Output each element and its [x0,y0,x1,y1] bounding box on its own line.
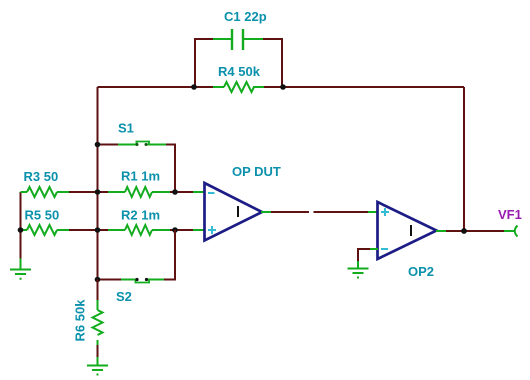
wire: left vertical bus x=97 [97,87,99,280]
wire: main feedback bus y=87 right part [263,86,464,88]
switch S1 bar [136,141,151,144]
op-amp U2 I bar [410,225,412,236]
switch S2 contact dots [135,278,138,281]
svg-text:R4 50k: R4 50k [218,64,261,79]
wire: OP2 minus green stub [369,248,378,250]
wire: C1 left vertical stub [194,38,196,87]
svg-text:R6 50k: R6 50k [73,299,88,342]
resistor R3 zigzag [27,187,57,197]
wire: row1 green stub into op-amp minus [193,191,206,193]
resistor R4 leads (green) [213,86,264,88]
op-amp U2 (OP2) triangle [378,202,437,259]
switch S1 green wire [118,144,166,146]
node: junction row2 S2 branch [172,227,178,233]
wire: row1 maroon bus-to-R1 [98,191,110,193]
wire: C1 right vertical stub [281,38,283,87]
switch S2 green wire [121,279,164,281]
wire: R6 bottom maroon [97,345,99,358]
wire: OP2 output maroon to VF1 [446,230,505,232]
node: junction row1 bus [95,189,101,195]
svg-text:R1 1m: R1 1m [121,169,160,184]
wire: OP DUT output maroon to OP2 [271,211,369,213]
wire: row2 left vertical to ground [20,230,22,260]
resistor R1 zigzag [125,187,152,197]
terminal VF1 hook [515,226,518,237]
node: junction row1 S1 branch [172,189,178,195]
wire: OP2 minus maroon to corner and down [358,248,370,262]
node: junction R4 left [191,84,197,90]
op-amp U1 plus sign [208,226,216,234]
switch S2 bar (below) [135,280,151,283]
svg-text:S1: S1 [118,121,134,136]
op-amp U1 (OP DUT) triangle [205,183,263,241]
resistor R5 zigzag [27,225,57,235]
wire: row2 maroon R2-to-opamp [170,229,194,231]
node: junction row2 bus [95,227,101,233]
wire: S2 row maroon segments [98,230,177,280]
resistor R2 leads (green) [108,229,171,231]
wire: right vertical feedback drop [463,87,465,231]
resistor R3 leads (green) [21,191,71,193]
svg-text:R5 50: R5 50 [25,207,60,222]
svg-text:OP2: OP2 [408,264,434,279]
node: junction output/feedback [461,228,467,234]
resistor R6 leads (green) [97,300,99,346]
node: junction S2/R6 [95,277,101,283]
wire: row1 maroon R1-to-opamp [170,191,194,193]
svg-text:C1 22p: C1 22p [224,9,267,24]
wire: C1 top branch right maroon segment [262,38,282,40]
wire: S1 row maroon segments [98,145,177,193]
wire: VF1 green terminal lead [504,230,514,232]
capacitor C1 leads (green) [213,38,263,40]
svg-text:R3 50: R3 50 [24,169,59,184]
resistor R1 leads (green) [108,191,171,193]
ground (below R6) [87,366,108,375]
node: junction row2 far left [18,227,24,233]
svg-text:R2 1m: R2 1m [121,207,160,222]
op-amp U2 minus sign [381,248,388,250]
wire: row1 left corner (R3) vertical [20,192,22,230]
wire: OP2 output green stub [436,230,447,232]
resistor R6 zigzag (vertical) [93,310,103,335]
wire: OP2 ground green stub [357,261,359,268]
wire: row2 maroon R5-to-bus [69,229,109,231]
op-amp U1 minus sign [208,192,215,194]
capacitor C1 plates [232,29,243,50]
wire: OP DUT output green stub [261,211,272,213]
op-amp U2 plus sign [381,208,389,216]
wire: C1 top branch left maroon segment [195,38,214,40]
wire: R6 ground green stub [97,357,99,365]
wire: row1 maroon R3-to-bus [69,191,97,193]
wire: row2 green stub into op-amp plus [193,229,206,231]
wire: row2 ground green stub [20,259,22,270]
resistor R4 zigzag [224,82,254,92]
svg-text:S2: S2 [116,289,132,304]
switch S1 contact dots [136,143,139,146]
wire: OP2 plus green stub [368,211,378,213]
ground (OP2 minus) [348,269,369,278]
node: junction R4 right [280,84,286,90]
wire: R6 top maroon [97,280,99,302]
node: junction S1 left [95,142,101,148]
ground (left, under R5 node) [10,270,31,279]
resistor R5 leads (green) [21,229,71,231]
svg-text:VF1: VF1 [498,207,522,222]
op-amp U1 I bar [237,206,239,217]
wire: main feedback bus y=87 left part [98,86,215,88]
svg-text:OP DUT: OP DUT [232,164,281,179]
resistor R2 zigzag [125,225,152,235]
